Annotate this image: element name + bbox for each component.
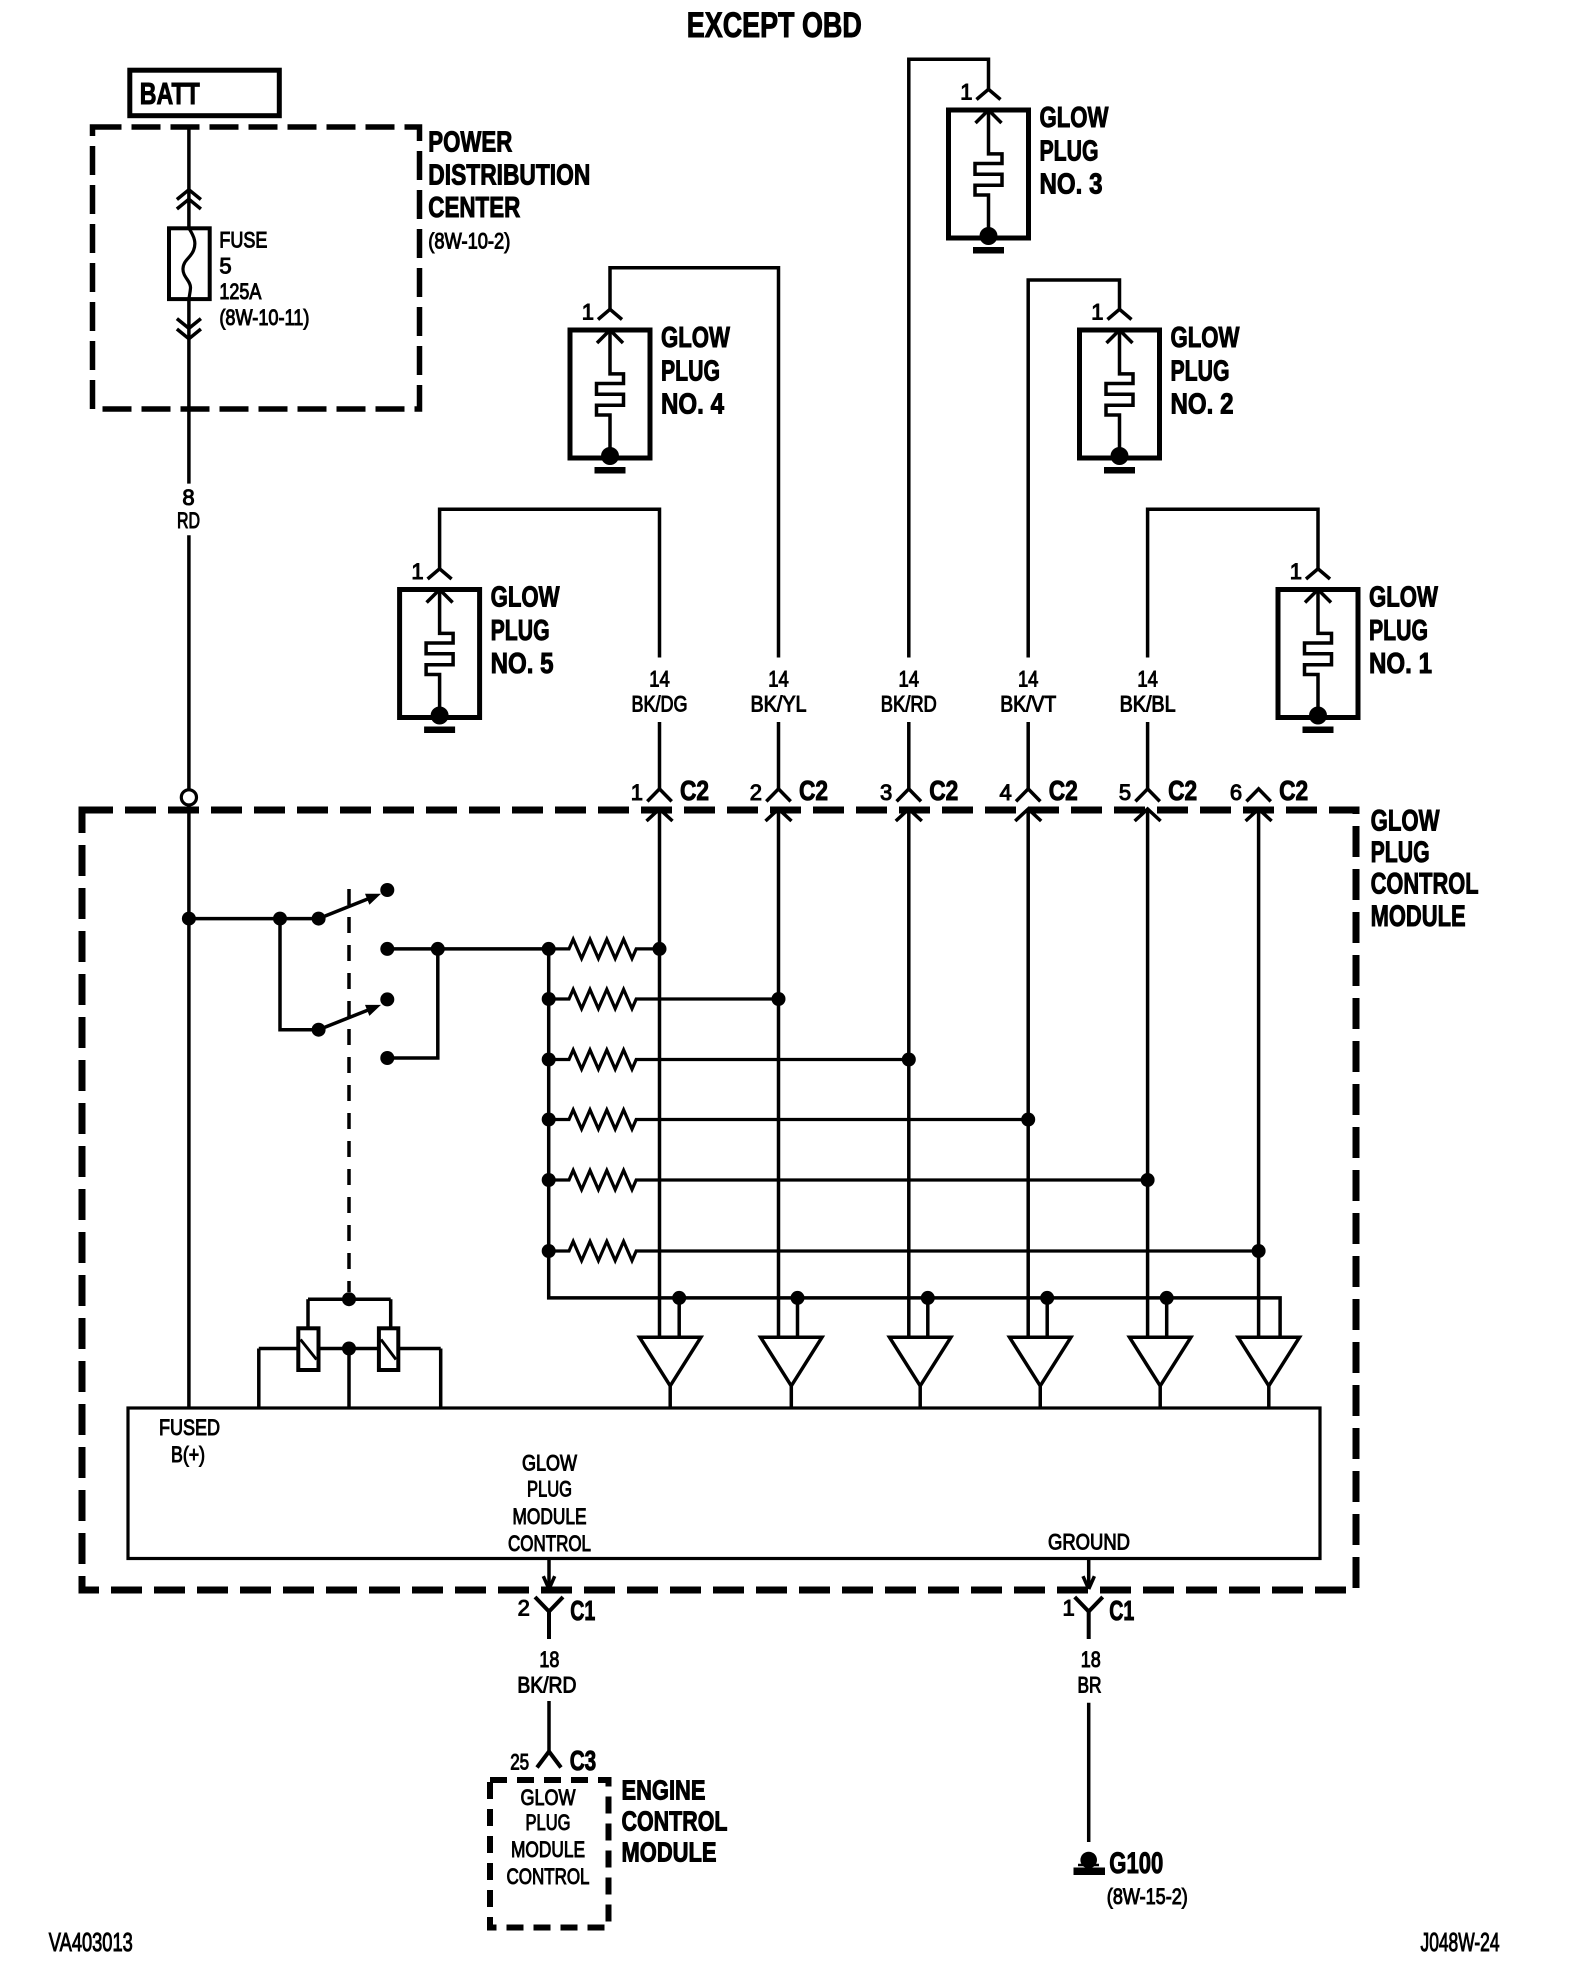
svg-text:G100: G100 bbox=[1109, 1847, 1163, 1880]
svg-text:NO. 1: NO. 1 bbox=[1369, 648, 1432, 680]
svg-text:(8W-10-11): (8W-10-11) bbox=[219, 305, 309, 330]
svg-text:NO. 4: NO. 4 bbox=[661, 389, 724, 421]
svg-text:(8W-15-2): (8W-15-2) bbox=[1107, 1884, 1188, 1909]
svg-text:1: 1 bbox=[582, 300, 594, 325]
svg-text:4: 4 bbox=[999, 780, 1011, 805]
svg-text:125A: 125A bbox=[219, 279, 261, 304]
svg-text:BK/YL: BK/YL bbox=[751, 692, 807, 717]
svg-text:BATT: BATT bbox=[140, 76, 200, 111]
svg-text:MODULE: MODULE bbox=[511, 1837, 585, 1862]
svg-text:GLOW: GLOW bbox=[661, 322, 730, 354]
svg-text:GLOW: GLOW bbox=[1040, 102, 1109, 134]
svg-text:25: 25 bbox=[510, 1749, 529, 1774]
svg-text:BK/RD: BK/RD bbox=[881, 692, 937, 717]
svg-text:CENTER: CENTER bbox=[428, 192, 520, 224]
svg-text:2: 2 bbox=[750, 780, 762, 805]
svg-text:18: 18 bbox=[539, 1647, 559, 1672]
svg-text:MODULE: MODULE bbox=[1371, 900, 1466, 933]
svg-text:C2: C2 bbox=[680, 775, 709, 806]
svg-text:14: 14 bbox=[1018, 667, 1039, 692]
svg-text:PLUG: PLUG bbox=[661, 355, 720, 387]
svg-text:BK/BL: BK/BL bbox=[1120, 692, 1176, 717]
svg-text:CONTROL: CONTROL bbox=[507, 1864, 590, 1889]
svg-text:FUSE: FUSE bbox=[219, 228, 267, 253]
svg-text:C2: C2 bbox=[1279, 775, 1308, 806]
svg-text:1: 1 bbox=[960, 80, 972, 105]
svg-text:C2: C2 bbox=[929, 775, 958, 806]
svg-text:BK/RD: BK/RD bbox=[517, 1672, 576, 1697]
svg-text:C3: C3 bbox=[570, 1745, 597, 1776]
svg-text:(8W-10-2): (8W-10-2) bbox=[428, 229, 510, 254]
svg-text:GLOW: GLOW bbox=[491, 582, 560, 614]
svg-text:CONTROL: CONTROL bbox=[622, 1805, 728, 1836]
svg-text:C1: C1 bbox=[570, 1595, 595, 1626]
svg-text:8: 8 bbox=[182, 485, 194, 510]
svg-text:C2: C2 bbox=[1168, 775, 1197, 806]
svg-text:CONTROL: CONTROL bbox=[1371, 867, 1479, 900]
svg-text:GROUND: GROUND bbox=[1048, 1530, 1130, 1555]
svg-text:GLOW: GLOW bbox=[522, 1450, 577, 1475]
svg-text:1: 1 bbox=[1091, 300, 1103, 325]
svg-text:1: 1 bbox=[1063, 1596, 1075, 1621]
svg-text:RD: RD bbox=[177, 508, 200, 533]
svg-text:DISTRIBUTION: DISTRIBUTION bbox=[428, 159, 590, 191]
svg-text:5: 5 bbox=[1119, 780, 1131, 805]
svg-text:14: 14 bbox=[899, 667, 920, 692]
svg-text:3: 3 bbox=[880, 780, 892, 805]
svg-text:GLOW: GLOW bbox=[1369, 582, 1438, 614]
svg-text:C1: C1 bbox=[1109, 1595, 1134, 1626]
svg-text:PLUG: PLUG bbox=[1369, 615, 1428, 647]
svg-text:14: 14 bbox=[649, 667, 670, 692]
svg-text:C2: C2 bbox=[1049, 775, 1078, 806]
svg-text:PLUG: PLUG bbox=[1171, 355, 1230, 387]
svg-text:VA403013: VA403013 bbox=[49, 1927, 133, 1957]
svg-text:1: 1 bbox=[411, 559, 423, 584]
svg-text:2: 2 bbox=[518, 1596, 530, 1621]
svg-text:GLOW: GLOW bbox=[1171, 322, 1240, 354]
svg-text:5: 5 bbox=[219, 253, 231, 278]
svg-text:CONTROL: CONTROL bbox=[508, 1531, 591, 1556]
svg-text:14: 14 bbox=[1137, 667, 1158, 692]
svg-text:BK/DG: BK/DG bbox=[632, 692, 688, 717]
svg-text:PLUG: PLUG bbox=[527, 1477, 572, 1502]
svg-text:PLUG: PLUG bbox=[491, 615, 550, 647]
svg-text:ENGINE: ENGINE bbox=[622, 1774, 706, 1805]
svg-text:FUSED: FUSED bbox=[159, 1415, 220, 1440]
svg-text:GLOW: GLOW bbox=[1371, 804, 1441, 837]
svg-text:J048W-24: J048W-24 bbox=[1421, 1927, 1500, 1957]
svg-text:GLOW: GLOW bbox=[521, 1785, 576, 1810]
svg-text:PLUG: PLUG bbox=[1040, 135, 1099, 167]
svg-text:BK/VT: BK/VT bbox=[1000, 692, 1056, 717]
svg-text:6: 6 bbox=[1230, 780, 1242, 805]
svg-text:18: 18 bbox=[1081, 1647, 1101, 1672]
svg-text:1: 1 bbox=[1290, 559, 1302, 584]
svg-text:14: 14 bbox=[768, 667, 789, 692]
svg-text:PLUG: PLUG bbox=[1371, 836, 1430, 869]
svg-text:BR: BR bbox=[1078, 1672, 1102, 1697]
svg-text:B(+): B(+) bbox=[171, 1442, 205, 1467]
svg-text:MODULE: MODULE bbox=[622, 1837, 717, 1868]
svg-text:NO. 5: NO. 5 bbox=[491, 648, 554, 680]
svg-text:NO. 3: NO. 3 bbox=[1040, 169, 1103, 201]
svg-text:EXCEPT OBD: EXCEPT OBD bbox=[687, 6, 862, 45]
svg-text:PLUG: PLUG bbox=[526, 1810, 571, 1835]
svg-text:1: 1 bbox=[631, 780, 643, 805]
svg-text:POWER: POWER bbox=[428, 127, 512, 159]
svg-text:MODULE: MODULE bbox=[513, 1504, 587, 1529]
svg-text:C2: C2 bbox=[799, 775, 828, 806]
svg-text:NO. 2: NO. 2 bbox=[1171, 389, 1234, 421]
